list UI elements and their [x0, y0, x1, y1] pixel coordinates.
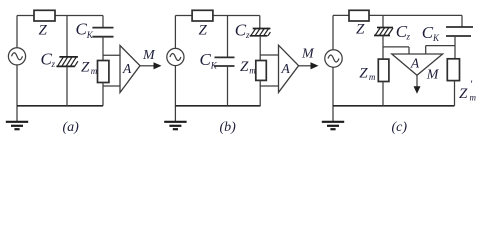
ground (a) — [6, 122, 28, 129]
wire bottom rail (b) — [175, 105, 260, 107]
wire output (a) — [140, 65, 155, 67]
sensor capacitor C_z (c) hatched box — [374, 28, 393, 36]
svg-text:C: C — [200, 50, 212, 69]
AC source G (a) — [8, 48, 25, 65]
wire Z_m to bottom rail (b) — [259, 80, 261, 105]
op-amp A (b) — [279, 45, 299, 92]
wire amp right input drop (c) — [425, 46, 427, 54]
svg-text:Z: Z — [459, 86, 468, 102]
impedance Z_m (c) — [378, 59, 389, 81]
wire C_z to Z_m (b) — [259, 36, 261, 61]
capacitor C_K (b) — [215, 57, 235, 66]
svg-text:K: K — [86, 30, 94, 40]
svg-text:m: m — [470, 93, 477, 103]
wire amp lower input (b) — [260, 85, 278, 87]
wire source to ground (a) — [16, 65, 18, 121]
wire C_K branch upper (b) — [227, 16, 229, 58]
svg-text:M: M — [426, 68, 440, 83]
svg-text:(b): (b) — [220, 120, 237, 135]
wire C_z series upper (b) — [259, 16, 261, 29]
wire bottom rail (c) — [333, 105, 455, 107]
wire C_K branch upper (a) — [102, 16, 104, 28]
wire C_z branch upper (a) — [66, 16, 68, 57]
wire amp left input drop (c) — [408, 47, 410, 54]
svg-text:′: ′ — [470, 79, 473, 91]
svg-text:(a): (a) — [63, 120, 80, 135]
svg-text:Z: Z — [359, 66, 368, 82]
wire amp upper input (a) — [103, 54, 120, 56]
svg-text:Z: Z — [240, 59, 249, 75]
svg-text:C: C — [76, 19, 88, 38]
wire C_K branch lower (b) — [227, 66, 229, 106]
capacitor C_K (c) — [446, 27, 473, 36]
svg-text:A: A — [410, 55, 420, 70]
wire C_K to junction (c) — [454, 36, 456, 59]
wire C_K to Z_m (a) — [102, 37, 104, 61]
svg-text:m: m — [91, 66, 98, 76]
svg-text:z: z — [51, 59, 56, 69]
svg-text:C: C — [235, 21, 247, 40]
output arrowhead M (a) — [154, 62, 162, 69]
svg-text:m: m — [369, 72, 376, 82]
svg-text:Z: Z — [199, 23, 208, 39]
svg-text:A: A — [281, 61, 291, 76]
output arrowhead M (b) — [311, 62, 319, 69]
impedance Z_m (a) — [98, 61, 109, 83]
wire C_K branch upper (c) — [461, 15, 463, 27]
resistor Z (a) — [34, 10, 55, 21]
wire source to ground (c) — [332, 67, 334, 121]
impedance Z_m (b) — [256, 61, 266, 81]
output arrowhead M (c) — [414, 86, 421, 94]
resistor Z (b) — [192, 10, 213, 21]
svg-text:z: z — [245, 30, 250, 40]
sensor capacitor C_z (b) hatched box — [250, 29, 271, 36]
resistor Z (c) — [349, 10, 369, 21]
wire C_z branch upper (c) — [382, 15, 384, 27]
svg-text:C: C — [422, 23, 434, 42]
wire Z_m' to bottom rail (c) — [454, 81, 456, 106]
capacitor C_K (a) — [92, 28, 113, 37]
AC source G (c) — [325, 50, 342, 67]
AC source G (b) — [167, 48, 184, 65]
wire source to ground (b) — [174, 66, 176, 121]
sensor capacitor C_z (a) hatched box — [56, 57, 78, 67]
wire output down (c) — [416, 75, 418, 87]
wire Z_m to bottom rail (c) — [382, 82, 384, 106]
wire amp right input horizontal (c) — [426, 45, 455, 47]
svg-text:m: m — [249, 66, 256, 76]
svg-text:Z: Z — [356, 22, 365, 38]
wire top rail (a) — [17, 15, 103, 17]
wire C_z to junction (c) — [382, 36, 384, 60]
svg-text:Z: Z — [39, 23, 48, 39]
wire left vertical (b) — [174, 16, 176, 49]
svg-text:Z: Z — [81, 60, 90, 76]
wire top rail (c) — [333, 14, 462, 16]
svg-text:z: z — [406, 32, 411, 42]
svg-text:M: M — [301, 47, 315, 62]
wire amp upper input (b) — [260, 54, 278, 56]
wire left vertical (a) — [16, 16, 18, 48]
svg-text:K: K — [210, 61, 218, 71]
impedance Z_m' (c) — [447, 59, 459, 81]
wire output (b) — [299, 65, 312, 67]
wire top rail (b) — [175, 15, 259, 17]
wire C_z branch lower (a) — [66, 66, 68, 105]
wire amp lower input (a) — [103, 85, 120, 87]
op-amp A (c) — [392, 54, 443, 75]
wire amp left input horizontal (c) — [383, 46, 409, 48]
ground (c) — [322, 122, 344, 129]
ground (b) — [164, 122, 186, 129]
op-amp A (a) — [120, 46, 140, 93]
wire left vertical (c) — [332, 15, 334, 50]
svg-text:M: M — [142, 48, 156, 63]
wire Z_m to bottom rail (a) — [102, 83, 104, 106]
svg-text:(c): (c) — [392, 120, 408, 135]
svg-text:A: A — [122, 61, 132, 76]
wire bottom rail (a) — [17, 105, 103, 107]
svg-text:K: K — [432, 33, 440, 43]
